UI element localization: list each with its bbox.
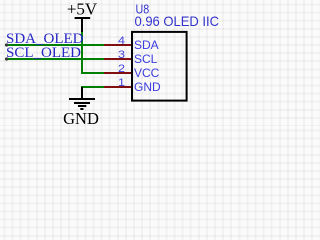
svg-text:+5V: +5V bbox=[67, 0, 98, 18]
ground bar 3 bbox=[78, 105, 86, 107]
svg-text:SDA: SDA bbox=[134, 38, 159, 52]
wire VCC bbox=[81, 72, 104, 74]
ground bar 1 bbox=[69, 98, 95, 100]
svg-text:1: 1 bbox=[118, 77, 125, 89]
svg-text:SCL_OLED: SCL_OLED bbox=[6, 45, 81, 61]
svg-text:VCC: VCC bbox=[134, 66, 160, 80]
node dot SDA wire end bbox=[5, 43, 8, 46]
power port +5V stem bbox=[81, 18, 83, 32]
power port +5V bar bbox=[75, 17, 91, 19]
svg-text:GND: GND bbox=[63, 109, 99, 126]
pin 3 SCL bbox=[104, 58, 132, 60]
svg-text:SCL: SCL bbox=[134, 52, 158, 66]
pin 2 VCC bbox=[104, 72, 132, 74]
wire SCL bbox=[5, 58, 104, 60]
ground bar 2 bbox=[74, 102, 90, 104]
svg-text:0.96 OLED IIC: 0.96 OLED IIC bbox=[135, 13, 220, 29]
svg-text:4: 4 bbox=[118, 35, 125, 47]
wire SDA bbox=[5, 44, 104, 46]
wire GND bbox=[81, 86, 104, 88]
ground bar 4 bbox=[80, 108, 83, 110]
wire vertical from +5V to VCC bbox=[81, 32, 83, 74]
svg-text:2: 2 bbox=[118, 63, 125, 75]
svg-text:3: 3 bbox=[118, 49, 125, 61]
ground stem bbox=[81, 87, 83, 98]
pin 1 GND bbox=[104, 86, 132, 88]
pin 4 SDA bbox=[104, 44, 132, 46]
node dot SCL wire end bbox=[5, 57, 8, 60]
component U8 body box bbox=[132, 32, 187, 101]
svg-text:GND: GND bbox=[134, 80, 161, 94]
